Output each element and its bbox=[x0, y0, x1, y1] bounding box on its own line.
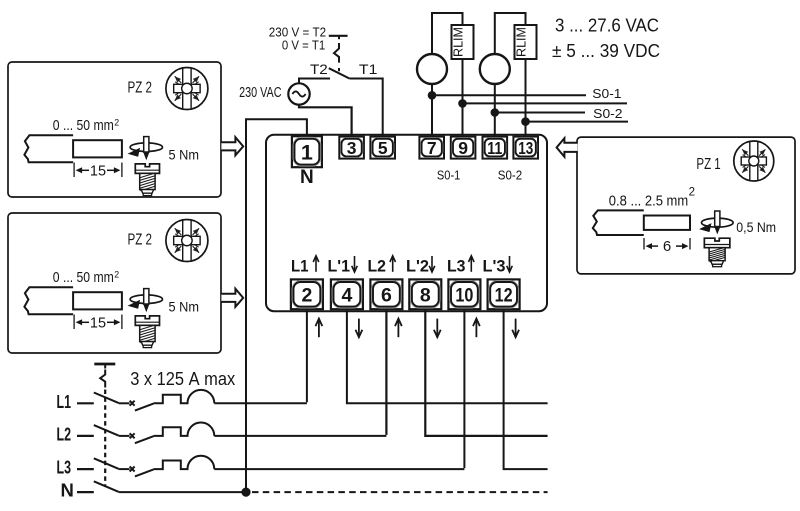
junction dot S0-2a bbox=[491, 108, 500, 117]
energy meter body outline bbox=[266, 135, 547, 311]
svg-text:L'3: L'3 bbox=[483, 258, 506, 276]
label PZ 2 upper bbox=[128, 80, 153, 97]
svg-text:9: 9 bbox=[458, 138, 468, 158]
svg-text:± 5 ... 39 VDC: ± 5 ... 39 VDC bbox=[552, 40, 660, 61]
switch linkage hook bbox=[100, 370, 105, 388]
detail box PZ2 lower bbox=[8, 213, 221, 353]
svg-text:L'2: L'2 bbox=[406, 258, 429, 276]
label S0-2 terminals bbox=[498, 168, 522, 183]
N row wire solid bbox=[119, 491, 246, 493]
svg-text:0 ... 50 mm: 0 ... 50 mm bbox=[53, 118, 114, 134]
svg-text:N: N bbox=[300, 167, 314, 188]
junction dot S0-1a bbox=[428, 91, 437, 100]
terminal 8 bbox=[409, 279, 441, 309]
wire L3 to terminal 10 bbox=[463, 309, 465, 468]
switch linkage dashed bbox=[104, 390, 106, 488]
screw icon lower bbox=[135, 316, 159, 348]
wire loop S0-2 source to RLIM bbox=[495, 13, 526, 55]
svg-text:5: 5 bbox=[378, 138, 388, 158]
screwdriver torque icon lower bbox=[128, 289, 163, 311]
S0-1 line b bbox=[463, 102, 628, 104]
junction dot S0-2b bbox=[521, 117, 530, 126]
label S0-2 wire bbox=[593, 106, 622, 121]
svg-text:0,5 Nm: 0,5 Nm bbox=[736, 219, 776, 235]
label L3 terminal 10 bbox=[447, 256, 474, 276]
wire RLIM1 to terminal 9 bbox=[462, 59, 464, 137]
terminal 2 bbox=[291, 279, 323, 309]
pozidriv icon PZ2 upper bbox=[166, 68, 208, 110]
breaker row L2 bbox=[57, 423, 387, 445]
svg-text:PZ 1: PZ 1 bbox=[696, 156, 720, 173]
svg-text:S0-2: S0-2 bbox=[498, 168, 522, 183]
terminal 10 bbox=[448, 279, 480, 309]
svg-text:T1: T1 bbox=[359, 62, 378, 77]
svg-text:1: 1 bbox=[301, 140, 313, 164]
arrow up terminal 10 bbox=[473, 319, 480, 338]
switch linkage T-bar bbox=[94, 364, 115, 369]
svg-text:0 ... 50 mm: 0 ... 50 mm bbox=[53, 270, 114, 286]
screwdriver torque icon upper bbox=[128, 137, 163, 159]
label L'3 terminal 12 bbox=[483, 256, 513, 276]
wire L1 to terminal 2 bbox=[306, 309, 308, 402]
svg-text:S0-1: S0-1 bbox=[592, 86, 621, 101]
selector position bar bbox=[329, 36, 348, 39]
wire RLIM2 to terminal 13 bbox=[525, 59, 527, 137]
label 3...27.6 VAC bbox=[555, 15, 659, 36]
wire graphic lower bbox=[24, 287, 121, 314]
arrow down terminal 4 bbox=[356, 319, 363, 338]
terminal 11 bbox=[483, 137, 508, 159]
block arrow box1 to meter bbox=[221, 137, 243, 155]
S0-2 source circle bbox=[480, 54, 510, 84]
svg-text:N: N bbox=[61, 480, 74, 501]
svg-text:13: 13 bbox=[518, 138, 533, 158]
label L1 terminal 2 bbox=[291, 256, 319, 276]
svg-text:11: 11 bbox=[487, 138, 502, 158]
label 5 Nm upper bbox=[169, 147, 200, 163]
label L'1 terminal 4 bbox=[328, 256, 358, 276]
svg-text:5 Nm: 5 Nm bbox=[169, 299, 200, 315]
label 0...50 mm2 upper bbox=[53, 117, 120, 134]
S0-1 line a bbox=[432, 94, 586, 96]
label 230 V = T2 bbox=[269, 24, 326, 39]
label 0...50 mm2 lower bbox=[53, 269, 120, 286]
dimension 6 bbox=[644, 238, 690, 255]
block arrow PZ1 to meter bbox=[557, 138, 578, 157]
AC source 230 VAC bbox=[288, 83, 309, 104]
svg-text:L'1: L'1 bbox=[328, 258, 351, 276]
svg-text:2: 2 bbox=[114, 117, 119, 127]
label 0,5 Nm bbox=[736, 219, 776, 235]
wire terminal 4 L1 out bbox=[347, 309, 548, 403]
svg-text:2: 2 bbox=[689, 187, 695, 199]
selector linkage hook bbox=[334, 43, 339, 71]
svg-text:0.8 ... 2.5 mm: 0.8 ... 2.5 mm bbox=[609, 193, 688, 209]
label PZ 1 bbox=[696, 156, 720, 173]
svg-text:10: 10 bbox=[455, 284, 473, 306]
svg-text:L3: L3 bbox=[57, 457, 72, 478]
wire T1 contact to terminal 5 bbox=[349, 79, 382, 137]
label 5 Nm lower bbox=[169, 299, 200, 315]
wire terminal1 N to N line bbox=[246, 119, 307, 489]
label PZ 2 lower bbox=[128, 232, 153, 249]
S0-1 source circle bbox=[417, 54, 447, 84]
svg-text:T2: T2 bbox=[310, 62, 328, 77]
terminal 4 bbox=[331, 279, 363, 309]
wire terminal 12 L3 out bbox=[504, 309, 548, 469]
N row wire dashed bbox=[252, 491, 548, 493]
svg-text:RLIM: RLIM bbox=[514, 27, 529, 57]
svg-text:RLIM: RLIM bbox=[451, 27, 466, 57]
label L'2 terminal 8 bbox=[406, 256, 435, 276]
svg-text:2: 2 bbox=[114, 269, 119, 279]
N row switch bbox=[77, 481, 119, 492]
label +-5...39 VDC bbox=[552, 40, 660, 61]
pozidriv icon PZ2 lower bbox=[166, 220, 208, 262]
dimension 15 lower bbox=[74, 315, 122, 332]
label N row bbox=[61, 480, 74, 501]
terminal 9 bbox=[451, 137, 476, 159]
wire AC source to terminal 3 bbox=[299, 105, 352, 137]
terminal 12 bbox=[488, 279, 520, 309]
wire terminal 8 L2 out bbox=[425, 309, 547, 436]
N junction dot bbox=[241, 488, 250, 497]
junction dot S0-1b bbox=[458, 99, 467, 108]
svg-text:L2: L2 bbox=[57, 423, 72, 444]
detail box PZ2 upper bbox=[8, 62, 221, 197]
label 230 VAC bbox=[239, 85, 281, 101]
block arrow box2 to meter bbox=[221, 289, 243, 307]
svg-text:3 x 125 A max: 3 x 125 A max bbox=[130, 368, 236, 389]
terminal 3 bbox=[339, 137, 364, 159]
svg-text:15: 15 bbox=[90, 163, 106, 179]
wire AC source to T2 contact bbox=[299, 79, 330, 84]
terminal 7 bbox=[419, 137, 444, 159]
arrow down terminal 8 bbox=[434, 319, 441, 338]
wire source1 to terminal 7 bbox=[431, 84, 433, 137]
label T1 bbox=[359, 62, 378, 77]
svg-text:2: 2 bbox=[301, 284, 312, 306]
svg-text:12: 12 bbox=[495, 284, 513, 306]
svg-text:L1: L1 bbox=[291, 258, 309, 276]
label T2 bbox=[310, 62, 328, 77]
terminal 6 bbox=[370, 279, 402, 309]
screw icon upper bbox=[135, 164, 159, 196]
label S0-1 wire bbox=[592, 86, 621, 101]
dimension 15 upper bbox=[74, 163, 122, 180]
detail box PZ1 bbox=[577, 137, 795, 274]
arrow up terminal 6 bbox=[395, 319, 402, 338]
wire loop S0-1 source to RLIM bbox=[432, 13, 463, 55]
svg-text:0 V = T1: 0 V = T1 bbox=[282, 37, 325, 52]
svg-text:PZ 2: PZ 2 bbox=[128, 232, 153, 249]
wire L2 to terminal 6 bbox=[385, 309, 387, 435]
svg-text:PZ 2: PZ 2 bbox=[128, 80, 153, 97]
label 0 V = T1 bbox=[282, 37, 325, 52]
label L2 terminal 6 bbox=[368, 256, 396, 276]
label 3 x 125 A max bbox=[130, 368, 236, 389]
svg-text:L1: L1 bbox=[57, 391, 72, 412]
pozidriv icon PZ1 bbox=[734, 141, 774, 181]
svg-text:3 ... 27.6 VAC: 3 ... 27.6 VAC bbox=[555, 15, 659, 36]
screwdriver torque icon PZ1 bbox=[699, 211, 733, 233]
svg-text:15: 15 bbox=[90, 315, 106, 331]
breaker row L1 bbox=[57, 390, 307, 412]
svg-text:L3: L3 bbox=[447, 258, 466, 276]
terminal 13 bbox=[513, 137, 538, 159]
arrow up terminal 2 bbox=[316, 319, 323, 338]
arrow down terminal 12 bbox=[512, 319, 519, 338]
svg-text:6: 6 bbox=[663, 238, 671, 255]
svg-text:6: 6 bbox=[381, 284, 392, 306]
terminal 5 bbox=[370, 137, 395, 159]
svg-text:5 Nm: 5 Nm bbox=[169, 147, 200, 163]
label S0-1 terminals bbox=[437, 168, 460, 183]
resistor RLIM 1 bbox=[451, 25, 474, 59]
S0-2 line a bbox=[495, 112, 585, 114]
svg-text:L2: L2 bbox=[368, 258, 387, 276]
svg-text:4: 4 bbox=[341, 284, 352, 306]
svg-text:3: 3 bbox=[347, 138, 357, 158]
svg-text:S0-2: S0-2 bbox=[593, 106, 622, 121]
svg-text:7: 7 bbox=[427, 138, 437, 158]
S0-2 line b bbox=[526, 121, 629, 123]
resistor RLIM 2 bbox=[514, 25, 537, 59]
wire source2 to terminal 11 bbox=[494, 84, 496, 137]
svg-text:230 VAC: 230 VAC bbox=[239, 85, 281, 101]
switch blade T2/T1 bbox=[329, 68, 350, 78]
terminal 1 bbox=[292, 136, 322, 167]
label N terminal bbox=[300, 167, 314, 188]
label 0.8...2.5 mm2 bbox=[609, 187, 695, 210]
wire graphic PZ1 bbox=[593, 210, 690, 235]
breaker row L3 bbox=[57, 456, 465, 478]
screw icon PZ1 bbox=[704, 238, 730, 266]
wire graphic upper bbox=[24, 135, 121, 162]
svg-text:S0-1: S0-1 bbox=[437, 168, 460, 183]
svg-text:8: 8 bbox=[420, 284, 431, 306]
